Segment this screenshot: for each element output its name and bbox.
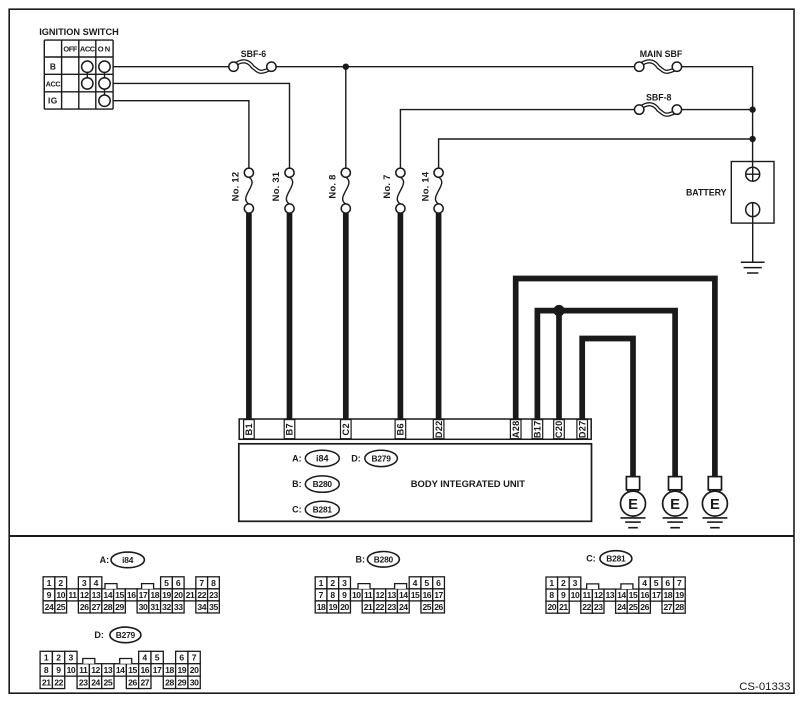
svg-text:27: 27 <box>140 677 149 687</box>
svg-text:E: E <box>710 497 720 513</box>
svg-text:18: 18 <box>165 665 174 675</box>
svg-text:12: 12 <box>594 590 603 600</box>
svg-text:SBF-8: SBF-8 <box>646 92 672 102</box>
svg-text:10: 10 <box>571 590 580 600</box>
fuse No. 31 <box>270 168 294 213</box>
svg-text:ACC: ACC <box>46 79 61 88</box>
svg-text:1: 1 <box>44 653 49 663</box>
svg-text:4: 4 <box>142 653 147 663</box>
svg-text:17: 17 <box>153 665 162 675</box>
svg-text:8: 8 <box>44 665 49 675</box>
svg-text:28: 28 <box>165 677 174 687</box>
svg-text:4: 4 <box>413 578 418 588</box>
svg-text:D:: D: <box>351 454 361 464</box>
svg-text:24: 24 <box>45 602 54 612</box>
svg-text:14: 14 <box>617 590 626 600</box>
wire: pin B17 to ground E2 <box>537 311 675 477</box>
svg-text:9: 9 <box>47 590 52 600</box>
svg-text:B:: B: <box>292 479 302 489</box>
svg-text:15: 15 <box>629 590 638 600</box>
connector pin-out D: B279 label <box>94 627 140 643</box>
connector pin-out A: i84 label <box>100 552 145 568</box>
svg-text:18: 18 <box>663 590 672 600</box>
svg-text:20: 20 <box>340 602 349 612</box>
wire: ignition B row to SBF-6 <box>113 66 229 68</box>
svg-text:2: 2 <box>330 578 335 588</box>
body integrated unit box <box>239 444 592 522</box>
svg-text:30: 30 <box>139 602 148 612</box>
svg-text:17: 17 <box>434 590 443 600</box>
svg-text:23: 23 <box>594 602 603 612</box>
svg-text:C:: C: <box>586 554 596 564</box>
svg-text:2: 2 <box>58 578 63 588</box>
svg-text:33: 33 <box>174 602 183 612</box>
svg-text:B280: B280 <box>313 479 333 489</box>
svg-text:30: 30 <box>190 677 199 687</box>
svg-text:MAIN SBF: MAIN SBF <box>640 49 683 59</box>
svg-text:IG: IG <box>48 95 58 105</box>
svg-text:B279: B279 <box>371 454 391 464</box>
svg-text:17: 17 <box>652 590 661 600</box>
svg-text:24: 24 <box>91 677 100 687</box>
wire: SBF-6 to MAIN SBF <box>276 66 634 68</box>
wire: battery to ground <box>752 217 754 263</box>
svg-text:22: 22 <box>54 677 63 687</box>
svg-text:No. 31: No. 31 <box>270 172 281 202</box>
svg-text:25: 25 <box>104 677 113 687</box>
svg-text:C2: C2 <box>341 423 351 435</box>
fuse No. 8 <box>327 168 351 213</box>
svg-text:24: 24 <box>617 602 626 612</box>
svg-text:E: E <box>670 497 680 513</box>
node: No. 14 junction <box>749 136 755 142</box>
svg-text:4: 4 <box>642 578 647 588</box>
svg-text:15: 15 <box>115 590 124 600</box>
svg-text:9: 9 <box>56 665 61 675</box>
svg-text:27: 27 <box>92 602 101 612</box>
svg-text:26: 26 <box>80 602 89 612</box>
svg-text:12: 12 <box>375 590 384 600</box>
svg-text:8: 8 <box>330 590 335 600</box>
pin C20 <box>554 420 565 439</box>
battery B1 <box>686 162 774 224</box>
svg-text:BODY INTEGRATED UNIT: BODY INTEGRATED UNIT <box>411 478 526 489</box>
svg-text:SBF-6: SBF-6 <box>241 49 267 59</box>
svg-text:5: 5 <box>155 653 160 663</box>
svg-text:3: 3 <box>573 578 578 588</box>
svg-text:7: 7 <box>199 578 204 588</box>
svg-text:13: 13 <box>92 590 101 600</box>
svg-text:CS-01333: CS-01333 <box>739 681 790 693</box>
fuse No. 12 <box>230 168 254 213</box>
svg-text:E: E <box>628 497 638 513</box>
svg-text:22: 22 <box>375 602 384 612</box>
wire: SBF-8 to battery line <box>682 109 753 111</box>
svg-text:14: 14 <box>103 590 112 600</box>
svg-text:1: 1 <box>549 578 554 588</box>
svg-text:29: 29 <box>115 602 124 612</box>
svg-text:A28: A28 <box>511 420 521 438</box>
svg-text:25: 25 <box>422 602 431 612</box>
svg-text:15: 15 <box>411 590 420 600</box>
ignition switch contacts <box>82 61 111 106</box>
svg-text:B281: B281 <box>606 554 626 564</box>
svg-text:BATTERY: BATTERY <box>686 188 727 198</box>
svg-text:3: 3 <box>69 653 74 663</box>
svg-text:26: 26 <box>434 602 443 612</box>
svg-text:IGNITION SWITCH: IGNITION SWITCH <box>39 27 119 37</box>
svg-text:19: 19 <box>328 602 337 612</box>
connector key B: B280 <box>292 476 339 492</box>
svg-text:ACC: ACC <box>80 45 96 54</box>
svg-text:B: B <box>50 62 56 72</box>
wire: branch node to fuse No. 8 <box>345 67 347 169</box>
svg-text:20: 20 <box>547 602 556 612</box>
svg-text:B279: B279 <box>116 630 136 640</box>
svg-text:5: 5 <box>164 578 169 588</box>
svg-text:2: 2 <box>56 653 61 663</box>
svg-text:32: 32 <box>162 602 171 612</box>
svg-text:No. 12: No. 12 <box>230 172 241 202</box>
svg-text:16: 16 <box>127 590 136 600</box>
svg-text:27: 27 <box>663 602 672 612</box>
fuse SBF-8 <box>635 92 682 116</box>
pin B7 <box>284 420 295 439</box>
svg-text:12: 12 <box>80 590 89 600</box>
svg-text:D22: D22 <box>434 420 444 438</box>
node: C20/B17 junction <box>553 305 564 316</box>
svg-text:34: 34 <box>197 602 206 612</box>
wire: MAIN SBF to battery <box>682 67 753 168</box>
svg-text:20: 20 <box>174 590 183 600</box>
svg-text:B281: B281 <box>313 505 333 515</box>
wire: pin D27 to ground E1 <box>582 339 633 477</box>
section separator line <box>9 535 794 537</box>
connector key D: B279 <box>351 450 397 466</box>
svg-text:B1: B1 <box>244 423 254 435</box>
body integrated unit connector strip <box>239 419 591 439</box>
pin D27 <box>577 420 588 439</box>
svg-text:i84: i84 <box>316 454 329 464</box>
svg-text:28: 28 <box>675 602 684 612</box>
svg-text:5: 5 <box>424 578 429 588</box>
svg-text:21: 21 <box>559 602 568 612</box>
svg-text:7: 7 <box>677 578 682 588</box>
fuse MAIN SBF <box>635 49 683 73</box>
svg-text:i84: i84 <box>122 555 134 565</box>
fuse No. 14 <box>419 168 443 213</box>
wire: fuse to pin B1 <box>246 213 252 420</box>
svg-text:18: 18 <box>150 590 159 600</box>
svg-text:15: 15 <box>128 665 137 675</box>
connector key C: B281 <box>292 501 339 517</box>
svg-text:B:: B: <box>356 554 366 564</box>
svg-text:B6: B6 <box>396 423 406 435</box>
svg-text:B17: B17 <box>533 420 543 438</box>
svg-text:B280: B280 <box>374 554 394 564</box>
svg-text:3: 3 <box>342 578 347 588</box>
svg-text:4: 4 <box>94 578 99 588</box>
connector pin-out C grid <box>546 577 685 613</box>
svg-text:18: 18 <box>317 602 326 612</box>
svg-text:10: 10 <box>56 590 65 600</box>
svg-text:6: 6 <box>436 578 441 588</box>
svg-text:6: 6 <box>176 578 181 588</box>
svg-text:ON: ON <box>98 45 111 54</box>
svg-text:14: 14 <box>399 590 408 600</box>
svg-text:26: 26 <box>640 602 649 612</box>
pin B1 <box>244 420 255 439</box>
svg-text:8: 8 <box>549 590 554 600</box>
svg-text:9: 9 <box>561 590 566 600</box>
svg-text:29: 29 <box>177 677 186 687</box>
pin A28 <box>510 420 521 439</box>
connector pin-out B grid <box>315 577 444 613</box>
svg-text:8: 8 <box>211 578 216 588</box>
svg-text:21: 21 <box>186 590 195 600</box>
svg-text:11: 11 <box>79 665 88 675</box>
wire: ignition IG row to fuse No. 12 <box>113 101 249 169</box>
svg-text:7: 7 <box>319 590 324 600</box>
svg-text:D:: D: <box>94 630 104 640</box>
svg-text:C20: C20 <box>554 420 564 438</box>
svg-text:3: 3 <box>82 578 87 588</box>
wire: SBF-8 to fuse No. 7 <box>400 110 634 169</box>
svg-text:C:: C: <box>292 505 302 515</box>
wire: pin A28 to ground E3 <box>516 279 715 477</box>
fuse SBF-6 <box>229 49 276 73</box>
svg-text:20: 20 <box>190 665 199 675</box>
svg-text:B7: B7 <box>285 423 295 435</box>
svg-text:19: 19 <box>675 590 684 600</box>
svg-text:OFF: OFF <box>63 45 77 54</box>
svg-text:A:: A: <box>100 555 110 565</box>
svg-text:16: 16 <box>640 590 649 600</box>
svg-text:25: 25 <box>629 602 638 612</box>
svg-text:26: 26 <box>128 677 137 687</box>
svg-text:2: 2 <box>561 578 566 588</box>
node: SBF-8 junction <box>749 106 755 112</box>
connector pin-out C: B281 label <box>586 551 632 567</box>
wire: fuse to pin B7 <box>287 213 293 420</box>
svg-text:No. 8: No. 8 <box>327 174 338 198</box>
svg-text:9: 9 <box>342 590 347 600</box>
pin C2 <box>341 420 352 439</box>
svg-text:6: 6 <box>665 578 670 588</box>
svg-text:1: 1 <box>319 578 324 588</box>
svg-text:25: 25 <box>56 602 65 612</box>
svg-text:23: 23 <box>387 602 396 612</box>
fuse No. 7 <box>381 168 405 213</box>
svg-text:10: 10 <box>67 665 76 675</box>
wire: fuse to pin B6 <box>398 213 404 420</box>
svg-text:19: 19 <box>162 590 171 600</box>
ground E2 <box>663 477 688 528</box>
wire: pin C20 to B17 bus <box>556 311 562 420</box>
svg-text:No. 7: No. 7 <box>381 174 392 198</box>
svg-text:10: 10 <box>352 590 361 600</box>
svg-text:16: 16 <box>422 590 431 600</box>
svg-text:21: 21 <box>364 602 373 612</box>
svg-text:6: 6 <box>179 653 184 663</box>
wire: battery line to fuse No. 14 <box>439 139 753 168</box>
ground E1 <box>621 477 646 528</box>
svg-text:7: 7 <box>192 653 197 663</box>
svg-text:5: 5 <box>654 578 659 588</box>
svg-text:14: 14 <box>116 665 125 675</box>
svg-text:23: 23 <box>79 677 88 687</box>
svg-text:28: 28 <box>103 602 112 612</box>
svg-text:31: 31 <box>150 602 159 612</box>
svg-text:12: 12 <box>91 665 100 675</box>
wire: fuse to pin D22 <box>436 213 442 420</box>
svg-text:1: 1 <box>47 578 52 588</box>
node: branch to fuse No. 8 <box>343 63 349 69</box>
svg-text:19: 19 <box>177 665 186 675</box>
ground E3 <box>702 477 727 528</box>
connector key A: i84 <box>292 450 339 466</box>
svg-text:A:: A: <box>292 454 302 464</box>
connector pin-out D grid <box>40 651 200 688</box>
svg-text:13: 13 <box>104 665 113 675</box>
svg-text:24: 24 <box>399 602 408 612</box>
svg-text:22: 22 <box>582 602 591 612</box>
svg-text:13: 13 <box>605 590 614 600</box>
connector pin-out A grid <box>43 577 219 613</box>
connector pin-out B: B280 label <box>356 552 400 568</box>
ignition switch table <box>44 40 113 109</box>
svg-text:No. 14: No. 14 <box>419 171 430 201</box>
pin D22 <box>433 420 444 439</box>
wire: fuse to pin C2 <box>343 213 349 420</box>
svg-text:17: 17 <box>139 590 148 600</box>
svg-text:13: 13 <box>387 590 396 600</box>
svg-text:22: 22 <box>197 590 206 600</box>
svg-text:21: 21 <box>42 677 51 687</box>
svg-text:35: 35 <box>209 602 218 612</box>
pin B6 <box>395 420 406 439</box>
svg-text:16: 16 <box>140 665 149 675</box>
svg-text:D27: D27 <box>577 420 587 438</box>
svg-text:23: 23 <box>209 590 218 600</box>
svg-text:11: 11 <box>68 590 77 600</box>
svg-text:11: 11 <box>583 590 592 600</box>
svg-text:11: 11 <box>364 590 373 600</box>
pin B17 <box>532 420 543 439</box>
ground: battery <box>741 262 765 273</box>
wire: ignition ACC row to fuse No. 31 <box>113 83 289 168</box>
